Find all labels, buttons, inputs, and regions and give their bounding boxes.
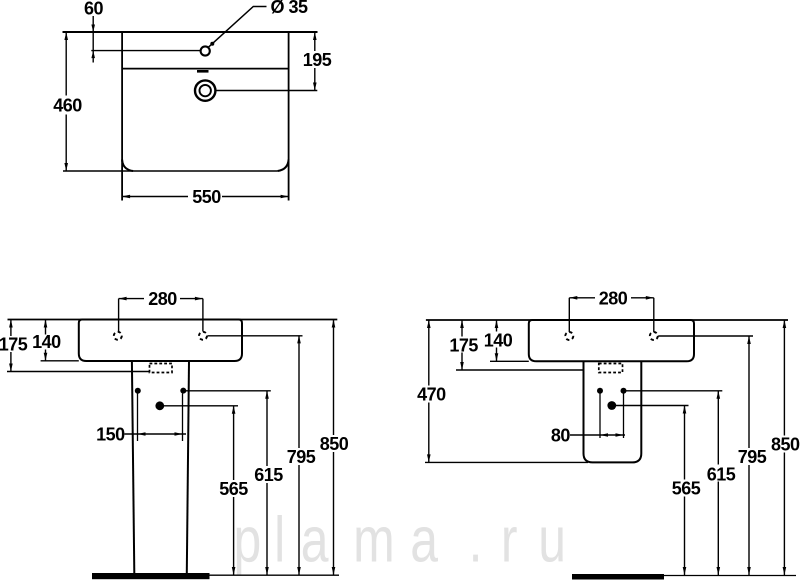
dim 140 line	[45, 320, 47, 361]
faucet hole right (dashed)	[650, 332, 658, 340]
svg-text:175: 175	[449, 336, 478, 356]
dim 615 line	[717, 391, 719, 575]
svg-text:60: 60	[84, 0, 104, 19]
svg-text:470: 470	[417, 385, 446, 405]
svg-text:615: 615	[707, 464, 736, 484]
overflow dash	[197, 70, 209, 73]
svg-text:Ø 35: Ø 35	[270, 0, 308, 17]
svg-text:615: 615	[254, 465, 283, 485]
svg-text:80: 80	[551, 426, 571, 446]
ext 280 right	[202, 299, 204, 332]
ledge line	[122, 68, 289, 70]
front-left rounded corner	[122, 160, 133, 172]
fixing dots level line	[624, 390, 723, 392]
ext 280 left	[568, 298, 570, 332]
svg-text:280: 280	[148, 289, 177, 309]
dim 615 line	[266, 391, 268, 575]
drain dashed box	[150, 364, 173, 373]
drain dot level line	[612, 405, 689, 407]
fixing dot left	[597, 388, 603, 394]
drain dot level line	[160, 405, 238, 407]
svg-text:280: 280	[599, 289, 628, 309]
floor line	[210, 574, 340, 576]
svg-text:795: 795	[738, 447, 767, 467]
svg-text:195: 195	[303, 50, 332, 70]
ext line 470 bottom	[425, 461, 588, 463]
svg-text:850: 850	[320, 434, 349, 454]
drain dashed box	[599, 364, 623, 373]
faucet hole left (dashed)	[114, 332, 122, 340]
fixing dots level line	[183, 390, 271, 392]
dim 175 line	[461, 320, 463, 370]
svg-text:140: 140	[32, 332, 61, 352]
floor bar	[572, 574, 664, 580]
sink body	[79, 320, 242, 362]
pedestal right edge	[187, 361, 189, 573]
dim 565 line	[233, 406, 235, 575]
dim 280 line	[569, 297, 654, 299]
dim 565 line	[684, 406, 686, 576]
ext 280 right	[653, 298, 655, 332]
dim 850 line	[333, 320, 335, 576]
hole level line	[208, 335, 303, 337]
drain dot	[155, 401, 164, 410]
dim 460 line	[65, 32, 67, 171]
dim 140 line	[496, 320, 498, 361]
dim 795 line	[748, 336, 750, 575]
faucet hole right (dashed)	[199, 332, 207, 340]
dim 195 line	[314, 32, 316, 91]
ext 280 left	[118, 299, 120, 332]
drain leader line	[216, 90, 318, 92]
leader line Ø35	[209, 7, 267, 47]
fixing dot right	[621, 388, 627, 394]
fixing dot right	[180, 388, 186, 394]
ext line 175 bottom	[456, 369, 584, 371]
semi-pedestal	[584, 361, 642, 462]
top edge line	[8, 319, 338, 321]
svg-text:850: 850	[771, 434, 800, 454]
dim 795 line	[298, 335, 300, 575]
faucet hole left (dashed)	[565, 332, 573, 340]
svg-text:140: 140	[484, 331, 513, 351]
svg-text:565: 565	[219, 479, 248, 499]
sink body	[529, 320, 694, 361]
ext 150 left	[137, 393, 139, 441]
pedestal left edge	[132, 361, 134, 573]
top edge line	[426, 319, 788, 321]
ext line 140 bottom	[490, 360, 529, 362]
svg-text:150: 150	[96, 425, 125, 445]
ext line 175 bottom	[7, 371, 150, 373]
dim 850 line	[783, 320, 785, 575]
dim 550 line	[122, 196, 289, 198]
dim 60 line	[92, 16, 94, 63]
front-right rounded corner	[278, 160, 289, 172]
svg-text:175: 175	[0, 335, 28, 355]
svg-text:460: 460	[53, 96, 82, 116]
ext line 140 bottom	[41, 360, 79, 362]
dim 280 line	[119, 298, 203, 300]
dim 175 line	[10, 320, 12, 372]
top edge line	[63, 31, 318, 33]
floor line	[664, 575, 796, 577]
sink right edge	[288, 32, 290, 201]
ext 80 right	[623, 393, 625, 438]
dim 470 line	[428, 320, 430, 462]
sink front edge with extension	[63, 170, 278, 172]
ext 80 left	[599, 393, 601, 438]
faucet hole	[201, 46, 210, 55]
drain dot	[607, 401, 616, 410]
fixing dot left	[135, 388, 141, 394]
floor bar	[92, 573, 210, 579]
sink left edge	[121, 32, 123, 201]
drain inner circle	[200, 85, 211, 96]
svg-text:795: 795	[287, 447, 316, 467]
ext 150 right	[182, 393, 184, 441]
svg-text:565: 565	[672, 479, 701, 499]
svg-text:550: 550	[192, 187, 221, 207]
drain outer circle	[195, 80, 215, 100]
dim 150 line	[125, 433, 187, 435]
faucet hole line	[91, 50, 200, 52]
dim 80 line	[570, 434, 625, 436]
hole level line	[658, 335, 753, 337]
